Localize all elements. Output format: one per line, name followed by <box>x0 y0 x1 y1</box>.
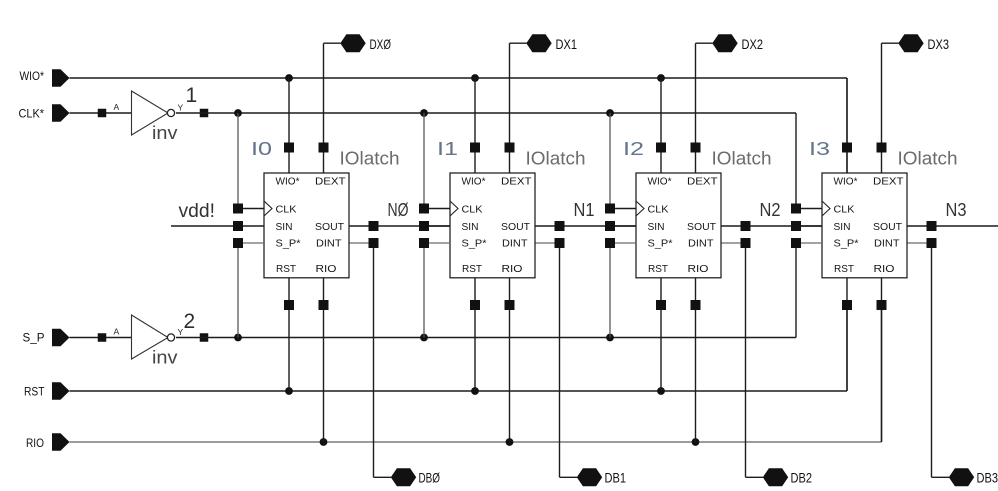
I0 pin DINT square <box>369 238 379 248</box>
I1 pin SOUT square <box>555 221 565 231</box>
svg-text:I3: I3 <box>809 139 830 159</box>
IOlatch instance I2 symbol body <box>636 173 721 278</box>
I0 pin RST bottom square <box>284 300 294 310</box>
svg-text:WIO*: WIO* <box>648 176 672 188</box>
wire WIO* net horizontal <box>70 77 848 79</box>
wire net NØ SOUT to next SIN <box>349 225 450 227</box>
junction I1 S_P* on S_P* net <box>420 334 428 342</box>
svg-text:DINT: DINT <box>316 238 342 250</box>
svg-text:DEXT: DEXT <box>687 176 718 188</box>
IOlatch instance I3 symbol body <box>822 173 907 278</box>
wire I2 CLK vertical drop <box>609 113 611 209</box>
svg-text:IOlatch: IOlatch <box>340 149 400 169</box>
wire DB2 horizontal stub <box>746 476 764 478</box>
wire I0 DEXT vertical to DX0 <box>323 43 325 173</box>
I2 pin SIN stub <box>605 221 636 231</box>
junction I0 WIO* net <box>285 74 293 82</box>
svg-text:CLK*: CLK* <box>19 107 45 121</box>
svg-text:WIO*: WIO* <box>276 176 300 188</box>
wire I1 DEXT vertical to DX1 <box>509 43 511 173</box>
wire I3 DINT vertical drop to DB3 <box>931 243 933 477</box>
junction I1 RIO net <box>506 438 514 446</box>
I0 pin CLK stub and clock wedge <box>233 201 272 216</box>
svg-text:CLK: CLK <box>462 204 483 216</box>
wire I0 DINT vertical drop to DB0 <box>373 243 375 477</box>
svg-text:DEXT: DEXT <box>315 176 346 188</box>
junction I2 WIO* net <box>657 74 665 82</box>
svg-text:S_P*: S_P* <box>276 238 301 250</box>
svg-text:RIO: RIO <box>688 263 709 275</box>
wire I1 WIO* vertical drop <box>474 78 476 173</box>
I1 pin DINT square <box>555 238 565 248</box>
svg-text:DINT: DINT <box>502 238 528 250</box>
inverter 1 output pin square Y <box>200 109 209 118</box>
wire net N2 SOUT to next SIN <box>721 225 822 227</box>
wire DB0 horizontal stub <box>374 476 392 478</box>
wire DB1 horizontal stub <box>560 476 578 478</box>
svg-text:A: A <box>114 102 120 112</box>
I2 pin RST bottom square <box>656 300 666 310</box>
I0 pin RIO bottom square <box>319 300 329 310</box>
I3 pin RIO bottom square <box>877 300 887 310</box>
wire I2 DINT stub <box>721 242 746 244</box>
I3 pin RST bottom square <box>842 300 852 310</box>
wire DX2 horizontal stub <box>696 42 713 44</box>
junction I1 RST net <box>471 387 479 395</box>
wire I1 RIO vertical drop <box>509 278 511 442</box>
wire inverted clock net horizontal from inverter 1 to I3 <box>176 112 796 114</box>
svg-text:A: A <box>114 327 120 337</box>
wire I3 DINT stub <box>907 242 932 244</box>
wire net N3 SOUT to sheet edge <box>907 225 998 227</box>
wire S_P pin to inverter 2 input <box>70 337 132 339</box>
inverter U1 inv 1 triangle and bubble <box>132 91 175 135</box>
svg-text:N3: N3 <box>946 199 967 220</box>
svg-text:SOUT: SOUT <box>873 221 903 233</box>
wire I1 DINT vertical drop to DB1 <box>559 243 561 477</box>
svg-text:N1: N1 <box>574 199 595 220</box>
wire I3 S_P* riser corner <box>795 243 797 338</box>
svg-text:DINT: DINT <box>688 238 714 250</box>
svg-text:SIN: SIN <box>276 221 293 233</box>
wire I1 RST vertical drop <box>474 278 476 391</box>
I3 pin S_P* stub <box>791 238 822 248</box>
power net vdd! wire to I0 SIN <box>171 225 238 227</box>
svg-text:CLK: CLK <box>648 204 669 216</box>
wire DX0 horizontal stub <box>324 42 341 44</box>
junction I0 CLK on inverted clock net <box>234 109 242 117</box>
wire I1 CLK vertical drop <box>423 113 425 209</box>
svg-text:I1: I1 <box>437 139 458 159</box>
inputOutput pin DX0 hexagon <box>340 34 365 52</box>
I1 pin S_P* stub <box>419 238 450 248</box>
svg-text:DX2: DX2 <box>742 36 764 52</box>
I3 pin DINT square <box>927 238 937 248</box>
svg-text:inv: inv <box>152 123 178 143</box>
wire CLK* pin to inverter 1 input <box>70 112 132 114</box>
svg-text:DEXT: DEXT <box>873 176 904 188</box>
wire I0 S_P* vertical drop <box>237 243 239 338</box>
junction I0 RIO net <box>320 438 328 446</box>
I1 pin RIO bottom square <box>505 300 515 310</box>
junction I0 S_P* on S_P* net <box>234 334 242 342</box>
svg-text:IOlatch: IOlatch <box>712 149 772 169</box>
svg-text:N2: N2 <box>760 199 781 220</box>
I2 pin DINT square <box>741 238 751 248</box>
wire I0 WIO* vertical drop <box>288 78 290 173</box>
inputOutput pin DB3 hexagon <box>949 468 974 486</box>
inverter 2 input pin square A <box>98 333 107 342</box>
I2 pin SOUT square <box>741 221 751 231</box>
svg-text:I0: I0 <box>251 139 272 159</box>
svg-text:S_P: S_P <box>23 331 45 345</box>
I3 pin SIN stub <box>791 221 822 231</box>
junction I2 CLK on inverted clock net <box>606 109 614 117</box>
wire I3 WIO* drop corner <box>846 78 848 173</box>
inverter 2 output pin square Y <box>200 333 209 342</box>
wire I0 RST vertical drop <box>288 278 290 391</box>
svg-text:DINT: DINT <box>874 238 900 250</box>
svg-text:inv: inv <box>152 348 178 368</box>
I1 pin DEXT top square <box>505 143 515 153</box>
IOlatch instance I1 symbol body <box>450 173 535 278</box>
IOlatch instance I0 symbol body <box>264 173 349 278</box>
svg-text:S_P*: S_P* <box>834 238 859 250</box>
svg-text:RIO: RIO <box>874 263 895 275</box>
svg-text:NØ: NØ <box>388 199 409 220</box>
svg-text:SOUT: SOUT <box>315 221 345 233</box>
wire RIO net horizontal <box>70 441 882 443</box>
inputOutput pin DX1 hexagon <box>526 34 551 52</box>
wire DX3 horizontal stub <box>882 42 899 44</box>
input pin RST <box>24 382 70 400</box>
wire net N1 SOUT to next SIN <box>535 225 636 227</box>
wire I3 RST vertical drop <box>846 278 848 391</box>
I0 pin SIN stub <box>233 221 264 231</box>
input pin CLK* <box>19 104 70 122</box>
junction I2 RIO net <box>692 438 700 446</box>
inverter U2 inv 2 triangle and bubble <box>132 315 175 359</box>
I0 pin WIO* top square <box>284 143 294 153</box>
svg-text:SOUT: SOUT <box>687 221 717 233</box>
inputOutput pin DB2 hexagon <box>763 468 788 486</box>
svg-text:WIO*: WIO* <box>20 69 45 83</box>
I0 pin SOUT square <box>369 221 379 231</box>
junction I2 S_P* on S_P* net <box>606 334 614 342</box>
svg-text:DB3: DB3 <box>977 469 998 485</box>
input pin S_P <box>23 329 70 347</box>
I0 pin DEXT top square <box>319 143 329 153</box>
I3 pin SOUT square <box>927 221 937 231</box>
wire I3 CLK drop corner <box>795 113 797 209</box>
inputOutput pin DB0 hexagon <box>391 468 416 486</box>
svg-text:DB2: DB2 <box>791 469 813 485</box>
svg-text:SOUT: SOUT <box>501 221 531 233</box>
wire I2 RIO vertical drop <box>695 278 697 442</box>
svg-text:2: 2 <box>184 310 196 333</box>
I2 pin WIO* top square <box>656 143 666 153</box>
wire I3 DEXT vertical to DX3 <box>881 43 883 173</box>
svg-text:CLK: CLK <box>276 204 297 216</box>
svg-text:IOlatch: IOlatch <box>898 149 958 169</box>
I2 pin RIO bottom square <box>691 300 701 310</box>
I3 pin CLK stub and clock wedge <box>791 201 830 216</box>
wire DX1 horizontal stub <box>510 42 527 44</box>
svg-text:SIN: SIN <box>834 221 851 233</box>
svg-text:SIN: SIN <box>462 221 479 233</box>
inputOutput pin DX3 hexagon <box>898 34 923 52</box>
wire I2 DINT vertical drop to DB2 <box>745 243 747 477</box>
svg-text:vdd!: vdd! <box>179 201 216 222</box>
junction I1 CLK on inverted clock net <box>420 109 428 117</box>
inverter 1 input pin square A <box>98 109 107 118</box>
I1 pin RST bottom square <box>470 300 480 310</box>
wire I3 WIO* vertical drop <box>846 78 848 173</box>
svg-text:S_P*: S_P* <box>648 238 673 250</box>
I3 pin WIO* top square <box>842 143 852 153</box>
wire I3 RIO riser corner <box>881 305 883 442</box>
input pin WIO* <box>20 69 70 87</box>
svg-text:WIO*: WIO* <box>462 176 486 188</box>
svg-text:RIO: RIO <box>502 263 523 275</box>
wire I3 RIO vertical drop <box>881 278 883 442</box>
svg-text:RST: RST <box>24 385 45 399</box>
svg-text:DX1: DX1 <box>556 36 578 52</box>
svg-text:I2: I2 <box>623 139 644 159</box>
inputOutput pin DB1 hexagon <box>577 468 602 486</box>
svg-text:1: 1 <box>186 84 198 107</box>
wire RST net horizontal <box>70 390 848 392</box>
svg-text:DEXT: DEXT <box>501 176 532 188</box>
svg-text:DB1: DB1 <box>605 469 627 485</box>
svg-text:WIO*: WIO* <box>834 176 858 188</box>
svg-text:DX3: DX3 <box>928 36 950 52</box>
wire I1 S_P* vertical drop <box>423 243 425 338</box>
junction I2 RST net <box>657 387 665 395</box>
svg-text:RIO: RIO <box>316 263 337 275</box>
svg-text:RST: RST <box>276 263 297 275</box>
svg-text:RIO: RIO <box>26 436 44 450</box>
svg-text:DBØ: DBØ <box>419 469 441 485</box>
wire I0 DINT stub <box>349 242 374 244</box>
svg-text:CLK: CLK <box>834 204 855 216</box>
wire DB3 horizontal stub <box>932 476 950 478</box>
wire I2 WIO* vertical drop <box>660 78 662 173</box>
I0 pin S_P* stub <box>233 238 264 248</box>
wire I2 S_P* vertical drop <box>609 243 611 338</box>
svg-text:RST: RST <box>462 263 483 275</box>
wire I0 RIO vertical drop <box>323 278 325 442</box>
svg-text:IOlatch: IOlatch <box>526 149 586 169</box>
wire I2 DEXT vertical to DX2 <box>695 43 697 173</box>
wire I1 DINT stub <box>535 242 560 244</box>
I2 pin CLK stub and clock wedge <box>605 201 644 216</box>
svg-text:S_P*: S_P* <box>462 238 487 250</box>
input pin RIO <box>26 433 70 451</box>
junction I1 WIO* net <box>471 74 479 82</box>
svg-text:RST: RST <box>834 263 855 275</box>
I1 pin CLK stub and clock wedge <box>419 201 458 216</box>
svg-text:DXØ: DXØ <box>370 36 392 52</box>
I2 pin DEXT top square <box>691 143 701 153</box>
junction I0 RST net <box>285 387 293 395</box>
svg-text:Y: Y <box>178 103 184 113</box>
wire I0 CLK vertical drop <box>237 113 239 209</box>
I3 pin DEXT top square <box>877 143 887 153</box>
inputOutput pin DX2 hexagon <box>712 34 737 52</box>
I2 pin S_P* stub <box>605 238 636 248</box>
I1 pin WIO* top square <box>470 143 480 153</box>
I1 pin SIN stub <box>419 221 450 231</box>
wire S_P* net horizontal from inverter 2 to I3 <box>176 337 796 339</box>
wire I2 RST vertical drop <box>660 278 662 391</box>
svg-text:SIN: SIN <box>648 221 665 233</box>
svg-text:RST: RST <box>648 263 669 275</box>
wire I3 RST riser corner <box>846 305 848 391</box>
